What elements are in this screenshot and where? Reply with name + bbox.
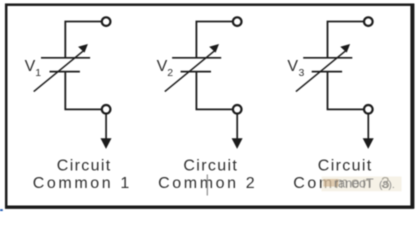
svg-text:Circuit: Circuit [318,157,373,174]
svg-text:2: 2 [167,67,173,79]
svg-text:(8).: (8). [379,179,395,191]
svg-text:Circuit: Circuit [183,157,238,174]
svg-text:Common 1: Common 1 [33,175,132,192]
svg-text:raneoT: raneoT [334,177,374,191]
svg-text:V: V [287,58,298,75]
svg-text:Circuit: Circuit [57,157,112,174]
svg-text:V: V [157,58,168,75]
svg-text:V: V [25,58,36,75]
svg-text:1: 1 [35,67,41,79]
svg-text:3: 3 [299,67,305,79]
